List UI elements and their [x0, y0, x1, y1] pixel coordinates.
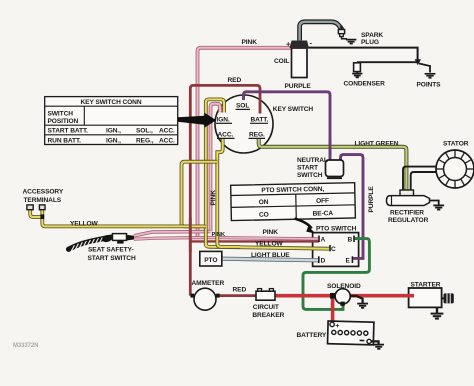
svg-text:REGULATOR: REGULATOR — [388, 217, 429, 224]
wire black battery minus to ground — [371, 341, 378, 344]
PTO switch S2 body — [313, 233, 359, 267]
svg-text:LIGHT BLUE: LIGHT BLUE — [251, 252, 290, 259]
wire yellow jog segment — [182, 162, 218, 227]
svg-text:M33372N: M33372N — [13, 343, 38, 349]
svg-text:D: D — [321, 258, 326, 265]
svg-text:A: A — [321, 237, 326, 244]
svg-text:COIL: COIL — [274, 58, 289, 65]
svg-text:ACCESSORY: ACCESSORY — [23, 189, 64, 196]
wire purple key SOL to neutral start switch — [244, 92, 331, 161]
ground starter — [431, 314, 444, 319]
svg-text:PINK: PINK — [210, 190, 217, 206]
spark plug P1 — [338, 26, 356, 44]
svg-text:CO: CO — [259, 212, 269, 219]
svg-text:PTO SWITCH CONN,: PTO SWITCH CONN, — [261, 186, 324, 194]
svg-text:KEY SWITCH CONN: KEY SWITCH CONN — [80, 99, 141, 106]
solenoid K1 — [330, 289, 363, 306]
svg-text:C: C — [331, 246, 336, 253]
wire yellow key ACC down — [217, 139, 240, 247]
svg-text:BATT.: BATT. — [251, 117, 269, 124]
wire bright red solenoid junction to battery + — [331, 296, 335, 323]
starter M1 body — [409, 288, 454, 307]
svg-text:NEUTRAL: NEUTRAL — [297, 157, 328, 164]
svg-text:ACC.: ACC. — [159, 137, 175, 144]
wire pink pair from seat safety switch — [134, 232, 319, 240]
svg-text:TERMINALS: TERMINALS — [24, 197, 62, 204]
svg-text:RED: RED — [228, 77, 242, 84]
svg-text:PURPLE: PURPLE — [285, 83, 312, 90]
coil high tension lead to spark plug — [300, 22, 343, 41]
svg-text:ACC.: ACC. — [159, 128, 175, 135]
svg-text:START: START — [297, 165, 318, 172]
svg-text:YELLOW: YELLOW — [255, 240, 283, 247]
wire yellow key IGN loop down to PTO switch C — [206, 99, 330, 248]
PTO label box — [200, 251, 222, 266]
stator G1 — [436, 150, 474, 188]
wire black starter to ground — [436, 307, 438, 313]
svg-text:AMMETER: AMMETER — [192, 280, 225, 287]
wire dark red overdraw at fan crossings — [189, 218, 192, 252]
svg-text:B: B — [348, 237, 353, 244]
svg-text:START BATT.: START BATT. — [48, 128, 89, 135]
wire yellow accessory terminals feed — [30, 210, 206, 227]
svg-text:CONDENSER: CONDENSER — [344, 81, 386, 88]
wire green PTO switch B to solenoid — [303, 239, 369, 310]
wire name labels — [13, 32, 469, 349]
ground battery — [373, 345, 384, 349]
coil T1 — [286, 39, 313, 78]
svg-text:PTO: PTO — [204, 257, 217, 264]
svg-text:KEY SWITCH: KEY SWITCH — [273, 106, 314, 113]
svg-text:ACC.: ACC. — [218, 132, 234, 139]
svg-text:STATOR: STATOR — [443, 140, 469, 147]
key switch U1 body — [215, 95, 273, 153]
svg-text:PTO SWITCH: PTO SWITCH — [316, 225, 357, 232]
svg-text:REG.,: REG., — [136, 137, 154, 144]
svg-text:SEAT SAFETY-: SEAT SAFETY- — [88, 246, 134, 253]
arrow from key switch table to IGN — [178, 113, 216, 128]
svg-text:RECTIFIER: RECTIFIER — [390, 210, 424, 217]
wire light green key REG to rectifier regulator — [259, 139, 407, 191]
svg-text:PINK: PINK — [263, 229, 279, 236]
points contact — [415, 59, 436, 77]
battery BT1 — [328, 321, 374, 345]
svg-text:BREAKER: BREAKER — [252, 312, 284, 319]
svg-text:PINK: PINK — [212, 232, 226, 238]
key switch connection table — [45, 97, 178, 145]
svg-text:+: + — [286, 40, 291, 49]
svg-text:+: + — [335, 323, 339, 330]
svg-text:RUN BATT.: RUN BATT. — [48, 137, 82, 144]
ground rectifier — [433, 205, 444, 209]
svg-text:ON: ON — [259, 199, 269, 206]
svg-text:SWITCH: SWITCH — [48, 110, 74, 117]
seat safety start switch S4 — [69, 234, 135, 252]
svg-text:SOLENOID: SOLENOID — [327, 283, 361, 290]
svg-text:CIRCUIT: CIRCUIT — [253, 304, 279, 311]
key switch terminal labels — [216, 103, 268, 139]
svg-text:IGN.: IGN. — [217, 117, 230, 124]
svg-text:SOL: SOL — [236, 103, 249, 110]
svg-text:POINTS: POINTS — [417, 82, 442, 89]
wire dark red branch to PTO switch A — [190, 240, 318, 242]
arrow from PTO table to PTO switch — [295, 219, 316, 234]
svg-text:POSITION: POSITION — [48, 118, 79, 125]
svg-text:SOL.,: SOL., — [136, 128, 153, 135]
svg-text:PURPLE: PURPLE — [368, 186, 375, 213]
svg-text:YELLOW: YELLOW — [70, 221, 98, 228]
svg-text:SWITCH: SWITCH — [297, 172, 323, 179]
svg-text:PLUG: PLUG — [361, 39, 379, 46]
wire pink loop at key switch IGN — [211, 104, 221, 232]
svg-text:PINK: PINK — [242, 39, 258, 46]
wire purple overdraw over light green crossing — [329, 140, 332, 155]
svg-text:IGN.,: IGN., — [106, 137, 121, 144]
wire light blue PTO label to PTO switch D — [222, 259, 319, 261]
svg-text:OFF: OFF — [316, 198, 329, 205]
wire black coil minus to points and condenser — [308, 48, 430, 73]
rectifier regulator VR1 — [387, 190, 430, 206]
svg-text:BATTERY: BATTERY — [297, 332, 327, 339]
neutral start switch S3 — [326, 160, 344, 178]
accessory terminals J1 — [27, 205, 45, 219]
condenser C1 — [352, 63, 362, 78]
svg-text:REG.: REG. — [249, 132, 265, 139]
svg-text:BE-CA: BE-CA — [313, 210, 334, 217]
svg-text:RED: RED — [233, 287, 247, 294]
wire black rectifier to ground — [429, 201, 438, 206]
ammeter M2 — [191, 288, 220, 310]
wire black stator leads to rectifier — [403, 167, 436, 191]
PTO switch terminal letters — [319, 236, 354, 265]
svg-text:E: E — [346, 258, 351, 265]
PTO switch connection table — [231, 183, 356, 221]
circuit breaker CB1 — [256, 289, 275, 301]
svg-text:STARTER: STARTER — [411, 281, 441, 288]
svg-text:LIGHT GREEN: LIGHT GREEN — [355, 140, 399, 147]
ground solenoid — [357, 304, 368, 308]
wire dark red battery feed: key BATT up over left and down to ammeter — [190, 85, 260, 295]
svg-text:START SWITCH: START SWITCH — [88, 255, 136, 262]
wire purple neutral start switch to PTO switch E — [341, 155, 364, 259]
wire bright red breaker to starter — [274, 294, 414, 298]
wire pink from key switch area down and over to coil + — [198, 48, 292, 238]
svg-text:IGN.,: IGN., — [106, 128, 121, 135]
